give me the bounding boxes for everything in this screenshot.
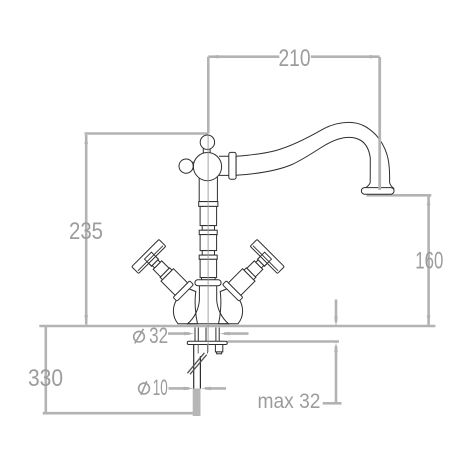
max32 dimension lines [323, 300, 342, 404]
column bead joint 3 [199, 255, 217, 259]
small nut [215, 345, 222, 352]
extension line elbow left of 210 [85, 57, 209, 134]
left handle center knob [144, 252, 158, 266]
handle collar flange [173, 281, 194, 302]
stub lines below plate [198, 345, 207, 354]
235 top arrow [84, 134, 88, 144]
column cylinder 2 [200, 235, 217, 251]
column groove 2 [202, 251, 214, 256]
235 bottom arrow [84, 315, 88, 325]
column segment under sphere [199, 177, 217, 202]
svg-text:235: 235 [69, 218, 103, 245]
right handle neck [256, 258, 266, 268]
210/160 extension line over spout [378, 57, 381, 190]
left handle assembly [132, 239, 199, 306]
base bell [188, 300, 229, 324]
lower column sides [199, 286, 216, 300]
right handle stem [247, 261, 263, 277]
top knob neck [203, 148, 210, 154]
svg-text:32: 32 [149, 323, 168, 348]
left handle stem [153, 261, 169, 277]
phi10 symbol [139, 381, 150, 395]
max32 up arrow [334, 342, 338, 352]
right handle assembly [217, 239, 284, 306]
phi32 symbol [134, 329, 145, 344]
left handle bonnet [161, 269, 188, 296]
right handle bonnet [228, 269, 255, 296]
column wide ring [195, 280, 221, 286]
right handle step ring [244, 268, 256, 280]
svg-text:10: 10 [153, 375, 168, 400]
right handle center knob [258, 252, 272, 266]
right bar edge line [253, 246, 278, 271]
column bead joint 1 [199, 202, 218, 207]
counter top line [39, 325, 435, 328]
side knob neck [190, 162, 196, 169]
phi10 leader [169, 387, 227, 390]
right handle elbow [219, 289, 243, 324]
dimension 160 corner [367, 195, 432, 325]
left handle step ring [160, 268, 172, 280]
160 top arrow [427, 196, 431, 206]
left handle neck [150, 258, 160, 268]
spout curved tube [236, 122, 393, 188]
column cylinder 1 [200, 206, 217, 225]
plate extension line [228, 340, 340, 343]
mounting plate [187, 341, 227, 344]
160 bottom arrow [427, 315, 431, 325]
spout tube stub between body and collar [219, 156, 229, 175]
left bar edge line [138, 246, 163, 271]
nut tip [217, 352, 222, 354]
spout collar [229, 152, 236, 179]
shank thread lines below counter [195, 328, 219, 342]
left cross handle bar [132, 239, 166, 273]
side knob [179, 159, 193, 173]
max32 down arrow [334, 317, 338, 327]
phi10 left-pointing arrow [201, 387, 211, 391]
phi32 right-pointing arrow [184, 332, 194, 336]
phi32 left-pointing arrow [220, 332, 230, 336]
phi10 right-pointing arrow [184, 387, 194, 391]
body sphere [193, 153, 221, 181]
right knob crossing accents [258, 252, 272, 266]
dimension 235 line [85, 135, 88, 325]
dimension arrowheads [84, 55, 430, 390]
svg-text:210: 210 [279, 45, 311, 72]
handle collar flange [222, 281, 243, 302]
column cap [202, 278, 216, 280]
column groove 1 [202, 226, 214, 231]
left knob crossing accents [144, 252, 158, 266]
left handle elbow [173, 289, 197, 324]
pipe break symbol [187, 353, 206, 375]
210 right arrow [370, 55, 380, 59]
gray rod band under counter [193, 389, 201, 417]
svg-text:max 32: max 32 [258, 390, 321, 413]
dimension 330 lines [43, 327, 200, 414]
phi32 leader [168, 332, 249, 335]
threaded rod [194, 345, 201, 389]
right cross handle bar [250, 239, 284, 273]
svg-text:330: 330 [28, 365, 63, 392]
top knob [200, 135, 214, 149]
spout outlet rim [361, 188, 394, 195]
column bead joint 2 [199, 230, 217, 234]
column cylinder 3 [200, 259, 217, 277]
dimension 210 line [208, 55, 379, 58]
svg-text:160: 160 [415, 248, 443, 275]
210 left arrow [209, 55, 219, 59]
centerline [207, 135, 209, 352]
